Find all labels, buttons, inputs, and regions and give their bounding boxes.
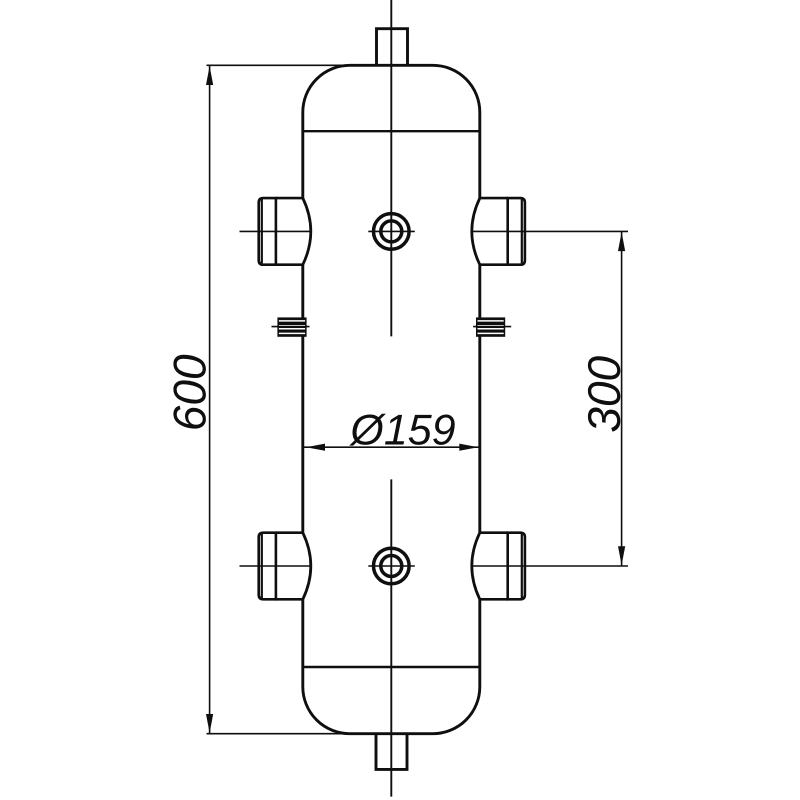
nozzle A2 lower-left saddle curve [303,533,311,600]
top branch pipe stub [377,29,408,66]
dimension 600 extension line top [207,64,353,66]
nozzle B2 lower-right cap flange [508,533,525,600]
nozzle B1 upper-right pipe top edge [479,197,508,200]
threaded boss left body [277,317,306,336]
dimension D159 line [303,446,480,448]
wire nozzle axis upper crosshair segment [368,230,415,232]
dimension 300 line [621,231,623,566]
nozzle A2 lower-left pipe bottom edge [276,598,304,601]
nozzle A2 lower-left cap inner face line [261,534,263,598]
threaded boss right body [476,317,505,336]
port P2 lower front outer circle [374,548,410,584]
wire main vertical centerline (upper segment) [390,0,392,336]
port P1 upper front inner circle [381,221,402,242]
wire main vertical centerline (lower segment) [390,479,392,796]
dimension 300 arrow down [618,546,625,565]
nozzle A1 upper-left cap flange [259,198,276,265]
wire threaded boss left axis [272,326,310,328]
port P2 lower front inner circle [381,556,402,577]
nozzle A2 lower-left pipe top edge [276,531,304,534]
wire threaded boss right axis [473,326,511,328]
vessel shell body [303,65,480,733]
dimension 300 arrow up [618,232,625,251]
nozzle A1 upper-left saddle curve [303,198,311,265]
wire nozzle axis upper y=231.4 left segment [240,230,312,232]
wire nozzle axis lower y=566 left segment [240,565,312,567]
threaded boss left thread lines [279,321,305,334]
port P1 upper front outer circle [374,214,410,250]
wire nozzle axis lower crosshair segment [368,565,415,567]
dimension text 300 [588,356,621,431]
nozzle A1 upper-left pipe bottom edge [276,263,304,266]
nozzle A2 lower-left cap flange [259,533,276,600]
dimension 600 arrow down [206,714,213,733]
dimension text D159 [349,414,455,446]
bottom branch pipe stub [376,734,407,770]
nozzle B2 lower-right saddle curve [472,533,480,600]
dimension 600 arrow up [206,66,213,85]
nozzle B1 upper-right cap inner face line [521,199,523,263]
dimension D159 arrow right [459,444,478,451]
nozzle B1 upper-right saddle curve [472,198,480,265]
nozzle B2 lower-right pipe bottom edge [479,598,508,601]
wire nozzle axis lower right segment / extension line [471,565,628,567]
nozzle A1 upper-left cap inner face line [261,199,263,263]
nozzle B1 upper-right cap flange [508,198,525,265]
nozzle B2 lower-right pipe top edge [479,531,508,534]
nozzle B2 lower-right cap inner face line [521,534,523,598]
threaded boss right thread lines [478,321,504,334]
weld seam bottom [303,666,480,668]
dimension 600 extension line bottom [207,733,353,735]
nozzle B1 upper-right pipe bottom edge [479,263,508,266]
weld seam top [303,130,480,132]
nozzle A1 upper-left pipe top edge [276,197,304,200]
dimension text 600 [173,355,206,429]
dimension D159 arrow left [306,444,325,451]
dimension 600 line [209,65,211,733]
wire nozzle axis upper right segment / extension line [471,230,628,232]
